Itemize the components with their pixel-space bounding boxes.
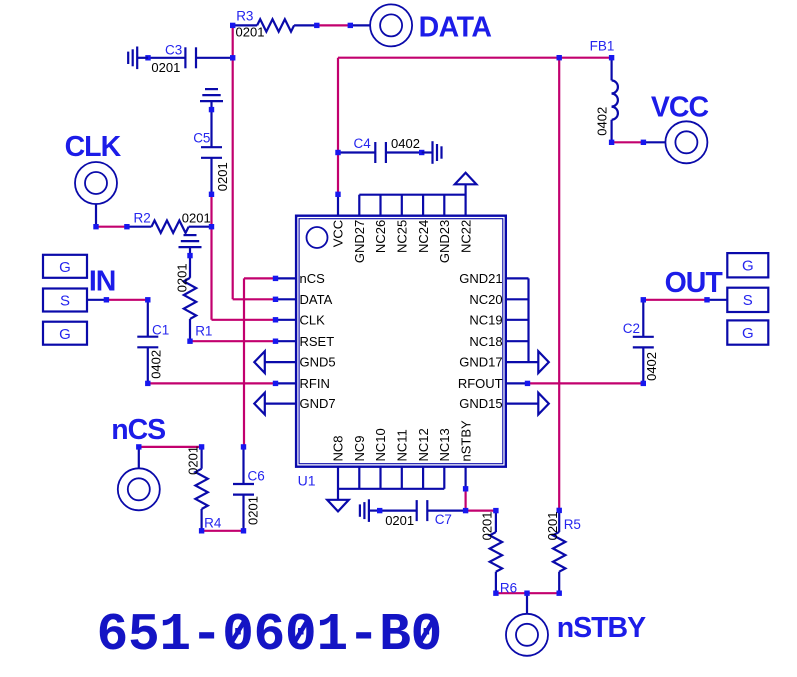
pin NC11 U1 bottom (395, 429, 410, 489)
label C2 (623, 321, 640, 336)
svg-text:NC12: NC12 (416, 428, 431, 461)
svg-text:G: G (59, 259, 71, 276)
svg-text:DATA: DATA (419, 11, 492, 43)
value 0402 C2 rotated (644, 352, 659, 381)
svg-text:NC25: NC25 (395, 220, 410, 253)
value 0201 C5 rotated (215, 162, 230, 191)
value 0402 C1 rotated (148, 350, 163, 379)
svg-text:C3: C3 (165, 42, 182, 57)
pin NC24 U1 top (416, 195, 431, 253)
svg-text:R3: R3 (236, 9, 253, 24)
connector CLK (75, 162, 117, 229)
svg-text:0201: 0201 (175, 263, 190, 292)
label VCC (651, 91, 709, 123)
svg-text:NC11: NC11 (395, 429, 410, 461)
resistor R2 (124, 221, 214, 233)
label C6 (248, 468, 265, 483)
pin GND15 U1 right (459, 393, 549, 415)
label C7 (435, 512, 452, 527)
svg-text:C5: C5 (193, 131, 210, 146)
ground arrow bottom NC8 (327, 500, 349, 512)
svg-text:0201: 0201 (151, 60, 180, 75)
pad OUT S (704, 288, 768, 312)
wire IN pad to C1 (106, 299, 148, 301)
svg-text:0402: 0402 (644, 352, 659, 381)
value 0201 R6 rotated (479, 511, 494, 540)
svg-text:nSTBY: nSTBY (458, 420, 473, 462)
pin NC25 U1 top (395, 195, 410, 253)
ground C3 (128, 47, 148, 70)
svg-text:C6: C6 (248, 468, 265, 483)
ground C4 (422, 141, 442, 164)
label C1 (152, 323, 169, 338)
connector nCS (118, 444, 160, 510)
value 0402 FB1 rotated (594, 107, 609, 136)
connector VCC (641, 121, 708, 163)
pin GND5 U1 left (254, 351, 335, 373)
wire CLK connector to R2 (96, 226, 127, 228)
svg-text:G: G (742, 325, 754, 342)
pin NC12 U1 bottom (416, 428, 431, 489)
resistor R3 (230, 19, 320, 31)
svg-text:nSTBY: nSTBY (557, 612, 646, 644)
resistor R1 (184, 253, 196, 344)
svg-text:NC20: NC20 (469, 292, 502, 307)
pin nSTBY U1 bottom (458, 420, 473, 492)
svg-text:0201: 0201 (385, 513, 414, 528)
title 651-0601-B0 (97, 605, 442, 665)
svg-text:G: G (59, 326, 71, 343)
svg-text:G: G (742, 258, 754, 275)
label OUT (665, 267, 724, 299)
capacitor C7 (377, 500, 468, 521)
svg-text:NC9: NC9 (352, 435, 367, 461)
ground arrow top NC22 (455, 173, 477, 185)
svg-text:NC18: NC18 (469, 334, 502, 349)
label R6 (500, 580, 517, 595)
svg-text:VCC: VCC (331, 220, 346, 247)
svg-text:OUT: OUT (665, 267, 724, 299)
connector nSTBY (506, 591, 548, 656)
resistor R6 (490, 508, 502, 596)
pin NC10 U1 bottom (373, 428, 388, 489)
label C5 (193, 131, 210, 146)
svg-text:0402: 0402 (594, 107, 609, 136)
label nCS (111, 414, 165, 446)
label R2 (134, 210, 151, 225)
pin NC18 U1 right (469, 334, 528, 349)
svg-text:651-0601-B0: 651-0601-B0 (97, 605, 442, 665)
label nSTBY (557, 612, 646, 644)
svg-text:0402: 0402 (148, 350, 163, 379)
svg-text:C2: C2 (623, 321, 640, 336)
svg-text:0201: 0201 (545, 511, 560, 540)
value 0201 R1 rotated (175, 263, 190, 292)
svg-text:NC8: NC8 (331, 435, 346, 461)
svg-text:nCS: nCS (300, 271, 326, 286)
svg-text:R5: R5 (564, 517, 581, 532)
pin NC9 U1 bottom (352, 435, 367, 488)
svg-text:GND7: GND7 (300, 396, 336, 411)
capacitor C1 (137, 297, 158, 386)
wire FB1 to VCC connector (612, 141, 644, 143)
wire C2 to OUT pad (643, 299, 707, 301)
capacitor C5 (201, 107, 222, 197)
svg-text:C1: C1 (152, 323, 169, 338)
capacitor C2 (633, 297, 654, 386)
svg-text:GND23: GND23 (437, 220, 452, 263)
svg-text:GND15: GND15 (459, 396, 502, 411)
capacitor C3 (145, 47, 235, 68)
label C4 (354, 136, 372, 151)
pin DATA U1 left (273, 292, 333, 307)
pad IN G bottom (43, 322, 87, 345)
svg-text:DATA: DATA (300, 292, 333, 307)
pin NC13 U1 bottom (437, 428, 452, 489)
node bottom GND comb bar (338, 488, 444, 490)
pin NC22 U1 top (458, 184, 473, 253)
svg-text:IN: IN (89, 266, 116, 298)
capacitor C6 (233, 444, 254, 533)
value 0201 C6 rotated (246, 496, 261, 525)
svg-text:C4: C4 (354, 136, 372, 151)
pad IN G top (43, 255, 87, 278)
svg-text:RFOUT: RFOUT (458, 376, 503, 391)
pin nCS U1 left (273, 271, 325, 286)
wire DATA net vertical (233, 25, 276, 299)
svg-text:CLK: CLK (65, 131, 122, 163)
wire RFIN net (148, 382, 276, 384)
svg-text:0402: 0402 (391, 136, 420, 151)
pin NC19 U1 right (469, 312, 528, 327)
svg-text:NC10: NC10 (373, 428, 388, 461)
svg-text:0201: 0201 (246, 496, 261, 525)
pin GND27 U1 top (352, 195, 367, 263)
label CLK (65, 131, 122, 163)
pin GND21 U1 right (459, 271, 528, 286)
ground C7 (360, 499, 380, 522)
svg-text:R1: R1 (195, 324, 212, 339)
pin NC20 U1 right (469, 292, 528, 307)
value 0402 C4 (391, 136, 420, 151)
svg-text:CLK: CLK (300, 312, 326, 327)
svg-text:S: S (60, 293, 70, 310)
ferrite bead FB1 (609, 55, 618, 145)
wire nSTBY pin to C7/R6 (466, 489, 496, 511)
label R5 (564, 517, 581, 532)
ground above C5 (200, 89, 223, 110)
svg-text:NC26: NC26 (373, 220, 388, 253)
svg-text:GND5: GND5 (300, 355, 336, 370)
pin NC8 U1 bottom (331, 435, 346, 499)
capacitor C4 (335, 142, 424, 163)
value 0201 R3 (236, 25, 265, 40)
pin GND23 U1 top (437, 195, 452, 263)
svg-text:NC24: NC24 (416, 220, 431, 253)
value 0201 R5 rotated (545, 511, 560, 540)
pin NC26 U1 top (373, 195, 388, 253)
wire nCS connector to R4 (139, 446, 202, 448)
wire RFOUT net (528, 382, 644, 384)
value 0201 R4 rotated (186, 446, 201, 475)
pad OUT G top (727, 253, 768, 277)
pin GND7 U1 left (254, 393, 335, 415)
svg-text:GND17: GND17 (459, 355, 502, 370)
wire VCC branch to R5 (557, 55, 562, 510)
svg-text:0201: 0201 (236, 25, 265, 40)
svg-text:nCS: nCS (111, 414, 165, 446)
value 0201 C3 (151, 60, 180, 75)
svg-text:S: S (743, 292, 753, 309)
wire R3 to DATA connector (317, 24, 351, 26)
svg-text:0201: 0201 (479, 511, 494, 540)
pin CLK U1 left (273, 312, 325, 327)
label R4 (204, 516, 222, 531)
wire R6/R5 to nSTBY connector (496, 592, 559, 594)
svg-text:0201: 0201 (186, 446, 201, 475)
label IN (89, 266, 116, 298)
wire nCS net (244, 278, 276, 447)
svg-text:FB1: FB1 (590, 38, 615, 53)
wire R4 to C6 (202, 530, 244, 532)
wire CLK net vertical (212, 194, 276, 319)
svg-text:GND21: GND21 (459, 271, 502, 286)
svg-text:0201: 0201 (182, 210, 211, 225)
node top GND comb bar (359, 194, 465, 196)
pin RSET U1 left (273, 334, 334, 349)
pin RFIN U1 left (273, 376, 330, 391)
op-amp U1 body (296, 216, 506, 467)
resistor R5 (553, 508, 565, 596)
value 0201 C7 (385, 513, 414, 528)
wire RSET net (190, 340, 276, 342)
svg-text:NC13: NC13 (437, 428, 452, 461)
connector DATA (348, 4, 413, 46)
pin GND17 U1 right (459, 351, 549, 373)
label FB1 (590, 38, 615, 53)
value 0201 R2 (182, 210, 211, 225)
svg-text:R2: R2 (134, 210, 151, 225)
wire VCC rail (338, 58, 612, 195)
svg-text:R4: R4 (204, 516, 222, 531)
node right GND comb bar (527, 278, 529, 362)
label C3 (165, 42, 182, 57)
svg-text:C7: C7 (435, 512, 452, 527)
svg-text:RSET: RSET (300, 334, 335, 349)
svg-text:NC19: NC19 (469, 312, 502, 327)
ground above R1 (179, 235, 202, 256)
svg-text:R6: R6 (500, 580, 517, 595)
label U1 (298, 473, 316, 489)
svg-text:NC22: NC22 (458, 220, 473, 253)
svg-text:RFIN: RFIN (300, 376, 330, 391)
label R1 (195, 324, 212, 339)
pad IN S (43, 289, 109, 312)
pad OUT G bottom (727, 320, 768, 344)
resistor R4 (195, 444, 207, 533)
pin RFOUT U1 right (458, 376, 530, 391)
svg-text:GND27: GND27 (352, 220, 367, 263)
svg-text:0201: 0201 (215, 162, 230, 191)
label DATA (419, 11, 492, 43)
svg-text:U1: U1 (298, 473, 316, 489)
label R3 (236, 9, 253, 24)
svg-text:VCC: VCC (651, 91, 709, 123)
pin VCC U1 top (331, 192, 346, 248)
